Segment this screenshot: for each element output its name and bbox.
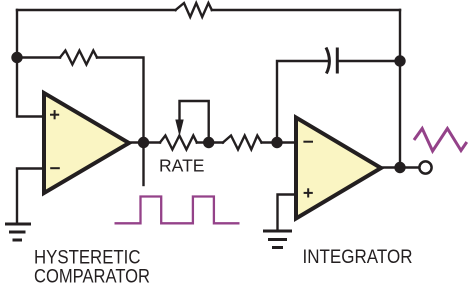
potentiometer RATE element xyxy=(160,136,197,150)
op-amp U1 minus sign xyxy=(50,167,60,169)
op-amp U2 minus sign xyxy=(303,141,313,143)
op-amp U1 hysteretic comparator xyxy=(44,93,129,193)
potentiometer wiper arrowhead xyxy=(175,120,183,137)
wire comparator minus input to ground xyxy=(17,169,44,223)
triangle-wave symbol (integrator output) xyxy=(414,129,467,152)
op-amp U2 integrator xyxy=(296,118,381,219)
potentiometer wiper arm loop to node B xyxy=(180,101,209,143)
op-amp U1 plus sign xyxy=(50,110,59,119)
square-wave symbol (comparator output) xyxy=(115,197,240,224)
wire top horizontal left of R1 xyxy=(17,9,176,11)
wire integrator plus input to ground xyxy=(278,195,297,230)
node E junction dot (left feedback) xyxy=(11,52,22,63)
ground comparator xyxy=(7,224,30,240)
wire node C up to capacitor xyxy=(277,61,327,143)
capacitor C1 straight plate xyxy=(336,48,339,74)
wire stub below node A (square-wave output) xyxy=(142,143,144,186)
node B junction dot (pot wiper tie) xyxy=(203,137,214,148)
output terminal open circle xyxy=(419,161,431,173)
wire left feedback horizontal right of R2 and down to comparator output xyxy=(97,58,144,143)
resistor R2 (comparator hysteresis feedback) xyxy=(60,51,97,65)
node A junction dot (comparator output) xyxy=(138,137,149,148)
wire R3 to node C and integrator minus input xyxy=(262,141,297,143)
ground integrator xyxy=(265,231,291,248)
wire node B between pot and R3 xyxy=(197,141,223,143)
svg-text:INTEGRATOR: INTEGRATOR xyxy=(303,246,413,268)
wire right vertical (integrator output feedback) xyxy=(399,10,401,168)
wire integrator output xyxy=(381,166,419,168)
resistor R3 (integrator input) xyxy=(223,136,262,150)
resistor R1 (top feedback) xyxy=(176,3,212,17)
wire capacitor right plate to node D xyxy=(337,60,400,62)
node C junction dot (integrator summing) xyxy=(271,137,282,148)
op-amp U2 plus sign xyxy=(304,188,313,197)
svg-text:RATE: RATE xyxy=(159,156,205,176)
wire top horizontal right of R1 xyxy=(212,9,400,11)
wire top-left vertical (feedback to comparator +) xyxy=(17,10,44,117)
capacitor C1 curved plate xyxy=(326,48,329,74)
node D junction dot (capacitor to feedback) xyxy=(394,55,405,66)
node F junction dot (integrator output) xyxy=(394,162,405,173)
wire left feedback horizontal left of R2 xyxy=(17,56,60,58)
svg-text:COMPARATOR: COMPARATOR xyxy=(34,266,150,285)
wire comparator output to node A xyxy=(129,141,160,143)
